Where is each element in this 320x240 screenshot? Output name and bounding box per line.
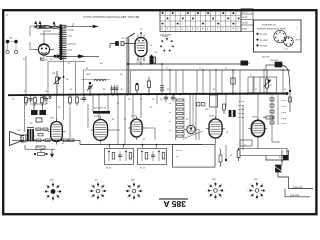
supply box right <box>248 77 277 94</box>
svg-text:5: 5 <box>133 200 134 202</box>
diode D1 <box>187 125 195 133</box>
wire: line y64 <box>128 63 241 65</box>
output transformer T1 <box>27 128 34 142</box>
tube base diagram small <box>160 35 174 51</box>
note: mirrored instruction text <box>83 15 139 19</box>
svg-text:xx xxx: xx xxx <box>260 45 268 48</box>
svg-text:3: 3 <box>43 191 44 193</box>
svg-text:7: 7 <box>61 191 62 193</box>
svg-text:2: 2 <box>46 185 47 187</box>
svg-text:8: 8 <box>103 185 104 187</box>
wire: vertical x290 down with cap <box>289 88 292 112</box>
wire: vertical x162 with comb <box>161 64 163 94</box>
svg-text:2: 2 <box>91 185 92 187</box>
wire: line y61.5 <box>48 61 85 63</box>
svg-text:xx rz: xx rz <box>242 11 248 14</box>
wire: vertical x26 <box>25 56 27 95</box>
components below bus: mid group <box>69 95 87 106</box>
svg-text:1: 1 <box>52 182 53 184</box>
legend socket circles <box>262 30 302 58</box>
svg-text:xx xxx: xx xxx <box>238 105 245 107</box>
RC pairs box A <box>105 144 134 165</box>
components below bus: left group <box>25 95 49 106</box>
wire: speaker leads <box>21 95 28 142</box>
svg-text:xx xxx: xx xxx <box>238 117 245 119</box>
IF can box x210 <box>210 95 218 107</box>
capacitor C2 pair left of V2 <box>110 42 135 49</box>
svg-text:4: 4 <box>250 197 251 199</box>
svg-text:6: 6 <box>59 198 60 200</box>
coil comb x162 <box>160 86 164 91</box>
svg-text:xxxxxxx xxxxx xxxx xxxxl: xxxxxxx xxxxx xxxx xxxxl <box>257 26 286 30</box>
wire: right column to terminals <box>272 141 280 143</box>
svg-text:xx xx: xx xx <box>140 168 146 170</box>
svg-text:xxx-xxx: xxx-xxx <box>290 193 300 197</box>
svg-text:xxzx x: xxzx x <box>94 115 102 118</box>
table: right legend column <box>241 9 253 32</box>
wire: coil taps right <box>68 30 77 50</box>
trimmer C4 <box>87 82 93 93</box>
svg-text:xxx-xxx: xxx-xxx <box>293 185 303 189</box>
wire: verticals below bus center <box>118 94 240 150</box>
svg-text:6: 6 <box>262 197 263 199</box>
resistor x224 <box>223 104 226 114</box>
wire: lower bus y140 <box>12 139 80 141</box>
svg-text:zo-xx: zo-xx <box>296 40 302 42</box>
dark blob component right <box>283 155 288 160</box>
labels above tubes <box>50 114 258 119</box>
svg-text:7: 7 <box>265 190 266 192</box>
shield box: oscillator <box>84 70 131 94</box>
socket base B3 <box>124 178 143 201</box>
resistor x238 <box>237 148 240 161</box>
pot R11 with arrow <box>264 70 271 94</box>
svg-text:3: 3 <box>88 191 89 193</box>
svg-text:x xxl: x xxl <box>242 27 247 30</box>
wire: main ground bus <box>8 94 288 96</box>
labels above HT line <box>154 60 253 77</box>
IF transformer bar (dark) <box>93 111 110 114</box>
svg-text:xx xx: xx xx <box>106 168 112 170</box>
svg-text:7: 7 <box>106 191 107 193</box>
wire: thick double vertical x127.5 <box>127 33 135 94</box>
switch S2 dark <box>274 156 283 172</box>
svg-text:1: 1 <box>256 182 257 184</box>
small box lower right <box>240 140 252 146</box>
legend box <box>254 20 302 52</box>
arrow: tuning pointer lower <box>46 55 99 58</box>
resistor x233 with box <box>231 70 235 94</box>
svg-text:xx zl: xx zl <box>242 16 247 19</box>
component on box right <box>219 150 227 167</box>
svg-text:xx xxxl: xx xxxl <box>260 39 268 42</box>
speaker LS1 <box>10 132 25 146</box>
socket base B1 <box>43 179 62 203</box>
svg-text:3: 3 <box>247 190 248 192</box>
variable capacitor gang C1 <box>34 22 61 35</box>
labels column right of caps <box>238 101 245 119</box>
svg-text:xx xxx: xx xxx <box>176 150 183 152</box>
svg-text:1: 1 <box>215 182 216 184</box>
svg-text:3: 3 <box>124 191 125 193</box>
svg-text:8: 8 <box>59 185 60 187</box>
table: wave-switch position chart <box>160 11 241 32</box>
socket base B4 <box>206 178 225 201</box>
resistor stack x152 <box>150 55 156 65</box>
svg-text:2: 2 <box>209 184 210 186</box>
resistor x137 above bus <box>136 83 139 94</box>
svg-text:2: 2 <box>127 185 128 187</box>
resistor x149 above bus <box>148 77 151 94</box>
wire: lines y148.5 y155.5 <box>238 140 287 160</box>
svg-text:xx xxx: xx xxx <box>238 113 245 115</box>
tone cap cluster <box>25 145 55 157</box>
svg-text:xxx-xxx: xxx-xxx <box>270 59 279 62</box>
svg-text:4: 4 <box>209 197 210 199</box>
tube V6 <box>206 116 225 141</box>
svg-text:4: 4 <box>127 197 128 199</box>
title: drawing number 385 A rotated <box>159 199 188 209</box>
wire: verticals to bus left <box>48 56 76 95</box>
terminal labels dark <box>290 185 303 197</box>
svg-text:xzxx: xzxx <box>252 116 258 119</box>
electrolytic caps C5 C6 (dark) <box>30 104 47 122</box>
svg-text:7: 7 <box>224 190 225 192</box>
svg-text:5: 5 <box>52 201 53 203</box>
tube V2 <box>135 32 147 61</box>
phono input terminals J1 <box>6 40 18 54</box>
trimmer caps row <box>110 85 118 94</box>
wire: V2 pin stub to y64 <box>140 60 142 64</box>
svg-text:385 A: 385 A <box>163 199 186 209</box>
svg-text:1: 1 <box>133 182 134 184</box>
scattered value labels <box>12 29 289 163</box>
resistor horizontal x266-273 <box>263 116 273 119</box>
svg-text:6: 6 <box>103 197 104 199</box>
coil L2 oscillator <box>94 80 106 82</box>
tube V3 output near speaker <box>48 119 66 145</box>
tube V5 <box>128 116 145 140</box>
svg-text:xx fd: xx fd <box>242 22 248 25</box>
svg-text:‹: ‹ <box>296 26 297 30</box>
open terminals on bus <box>43 96 51 98</box>
component stack: detector network <box>169 98 184 140</box>
labels inside feedback box <box>176 150 183 158</box>
svg-text:6: 6 <box>139 197 140 199</box>
svg-text:8: 8 <box>139 185 140 187</box>
svg-text:z=zta: z=zta <box>162 35 168 38</box>
socket base B2 <box>88 178 107 201</box>
svg-text:xx xxx: xx xxx <box>260 33 268 36</box>
vertical label near speaker wire <box>25 100 27 106</box>
svg-text:6: 6 <box>221 197 222 199</box>
wire: verticals upper band <box>170 70 283 94</box>
feedback loop box <box>173 145 216 168</box>
svg-text:2: 2 <box>250 184 251 186</box>
svg-text:BE KOIL DETTOOOION MANKAT ALLI: BE KOIL DETTOOOION MANKAT ALLIh <box>83 15 139 19</box>
svg-text:5: 5 <box>215 199 216 201</box>
svg-text:xx xxx: xx xxx <box>238 101 245 103</box>
choke on line y64 end <box>241 61 251 66</box>
svg-text:xxx xxxx xx: xxx xxxx xx <box>93 107 107 110</box>
wire: HT line y70 <box>131 69 291 71</box>
wire: line y65 right + dark box <box>266 62 290 88</box>
labels under RC boxes <box>106 168 146 170</box>
resistors on y140 <box>34 139 74 142</box>
junction dots line y64/y70 <box>127 63 284 71</box>
svg-text:x.xx: x.xx <box>136 61 141 64</box>
svg-text:1: 1 <box>97 182 98 184</box>
wire: right terminal runs <box>266 150 313 197</box>
extra caps below bus x166 x173 <box>164 94 175 102</box>
hook mark left of upper arrow <box>72 23 74 27</box>
hook wire near V1 <box>40 58 44 61</box>
svg-text:8: 8 <box>262 184 263 186</box>
wire: vertical x193 + diagonal <box>185 94 203 138</box>
svg-text:3: 3 <box>206 190 207 192</box>
svg-text:xxxxxxxx xx: xxxxxxxx xx <box>262 24 276 27</box>
wire: tube row connections <box>57 94 259 160</box>
svg-text:5: 5 <box>256 199 257 201</box>
socket base B5 <box>247 178 266 201</box>
svg-text:xxzx: xxzx <box>209 115 215 118</box>
junction dot x63.5 <box>63 76 65 78</box>
svg-text:4: 4 <box>46 198 47 200</box>
caps pair right of stack <box>197 103 205 106</box>
corner speck <box>6 14 7 15</box>
wire: lower bus y144.6 <box>80 144 202 146</box>
arrow: tuning pointer upper <box>64 25 98 28</box>
pot R2 with arrow <box>54 71 61 95</box>
svg-text:xzxx: xzxx <box>131 114 137 117</box>
bus end blob <box>286 92 289 95</box>
tube V1 <box>34 40 54 57</box>
svg-text:8: 8 <box>221 184 222 186</box>
bus junction dots <box>23 93 284 97</box>
right column component stack <box>270 95 287 142</box>
svg-text:4: 4 <box>91 197 92 199</box>
coil L1 antenna coil assembly <box>59 25 67 61</box>
svg-text:7: 7 <box>142 191 143 193</box>
svg-text:xx xxx: xx xxx <box>238 109 245 111</box>
RC pairs box B <box>138 144 167 165</box>
wire: V1 connections <box>30 26 51 60</box>
tube V7 output dark <box>249 117 268 139</box>
dark caps x230 x234 <box>229 110 236 117</box>
tube V4 <box>91 117 111 144</box>
wire: verticals to V4 <box>64 95 109 138</box>
RC cluster near transformer <box>35 128 49 136</box>
svg-text:5: 5 <box>97 200 98 202</box>
